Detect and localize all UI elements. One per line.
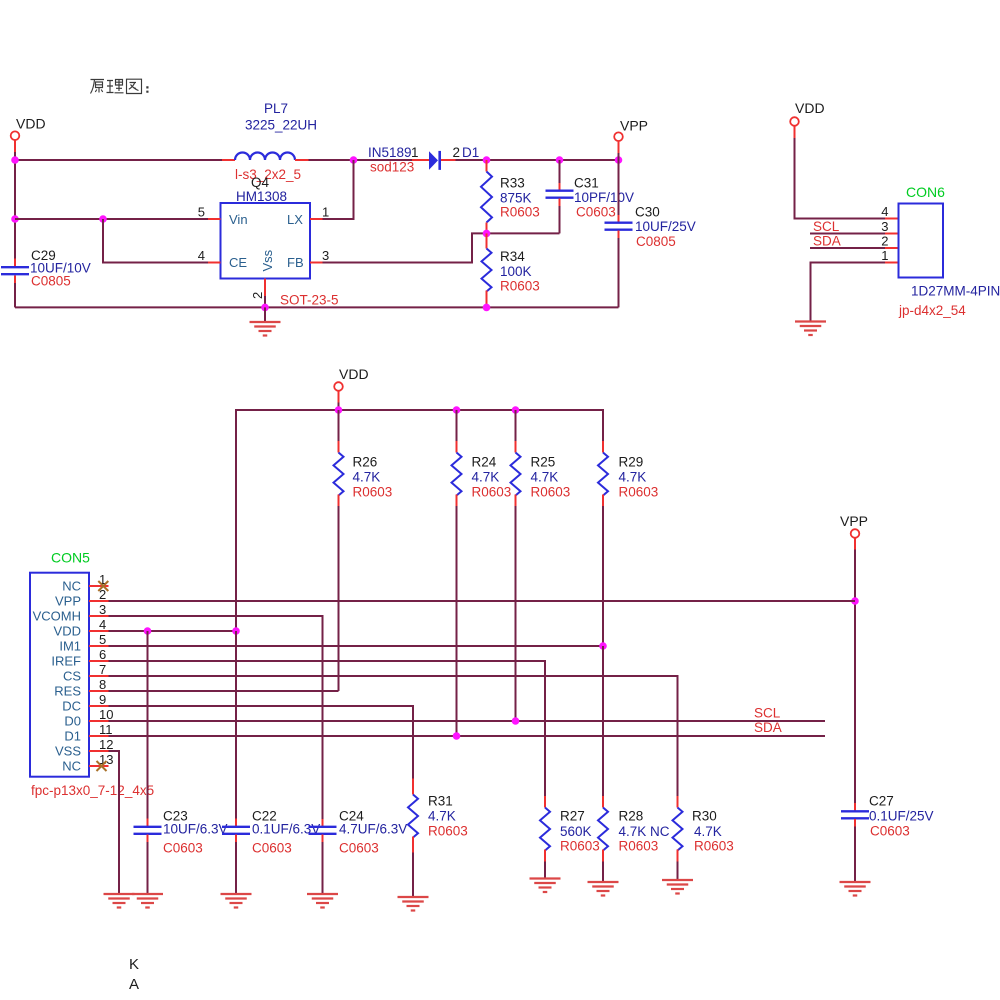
svg-text:12: 12 <box>99 737 113 752</box>
wire R29 to IM1 line <box>602 506 604 646</box>
svg-text:SCL: SCL <box>754 706 781 721</box>
connector CON5 <box>30 550 154 799</box>
resistor R24 <box>452 410 512 506</box>
svg-text:9: 9 <box>99 692 106 707</box>
resistor R29 <box>598 441 658 506</box>
node LX junction <box>350 156 358 164</box>
svg-text:4.7K: 4.7K <box>531 470 559 485</box>
node VDD rail at R26 <box>335 406 343 414</box>
svg-text:C0805: C0805 <box>31 274 71 289</box>
svg-text:A: A <box>129 976 139 993</box>
bottom margin letters <box>129 956 139 993</box>
node R33 top <box>483 156 491 164</box>
svg-text:3: 3 <box>881 219 888 234</box>
svg-text:VSS: VSS <box>55 744 81 759</box>
wire CE branch <box>103 219 208 263</box>
wire VPP column <box>854 550 856 804</box>
pin 3 FB stub <box>310 248 329 263</box>
wire R25 to D0 line <box>515 506 517 721</box>
svg-text:10PF/10V: 10PF/10V <box>574 190 634 205</box>
wire R26 to RES line <box>338 506 340 691</box>
ground (CON6) <box>795 322 826 336</box>
node R33/R34/C31/FB <box>483 230 491 238</box>
power port VDD (lower) <box>334 366 368 410</box>
svg-text:VPP: VPP <box>55 594 81 609</box>
svg-text:560K: 560K <box>560 824 592 839</box>
resistor R26 <box>334 410 393 506</box>
wire pin11 D1 / SDA <box>109 735 826 737</box>
ground (R27) <box>530 879 561 893</box>
svg-text:R25: R25 <box>531 455 556 470</box>
resistor R34 <box>482 233 540 307</box>
pin 4 CE stub <box>198 248 221 263</box>
ground (R31) <box>398 897 429 911</box>
svg-text:R0603: R0603 <box>694 839 734 854</box>
wire pin5 IM1 <box>109 645 604 647</box>
svg-text:4.7K: 4.7K <box>353 470 381 485</box>
node VPP column <box>615 156 623 164</box>
svg-text:Q4: Q4 <box>251 175 270 190</box>
pin 5 Vin stub <box>198 205 221 220</box>
svg-text:FB: FB <box>287 255 304 270</box>
svg-text:R29: R29 <box>619 455 644 470</box>
svg-text:3: 3 <box>322 248 329 263</box>
svg-text:R34: R34 <box>500 249 525 264</box>
svg-text:D0: D0 <box>64 714 81 729</box>
CON5 pin names <box>33 579 82 774</box>
wire C29 bottom <box>14 283 16 307</box>
node left Vin junction <box>11 215 19 223</box>
node Vss ground junction <box>261 304 269 312</box>
svg-text:CON5: CON5 <box>51 550 90 566</box>
svg-text:R26: R26 <box>353 455 378 470</box>
capacitor C30 <box>605 160 696 307</box>
svg-text:100K: 100K <box>500 264 532 279</box>
ground (top circuit) <box>250 322 281 336</box>
svg-text:VDD: VDD <box>339 366 369 382</box>
svg-text:4.7K: 4.7K <box>428 809 456 824</box>
svg-text:2: 2 <box>250 292 265 299</box>
wire VDD to CON6 pin4 <box>795 138 886 219</box>
ground (R30) <box>662 880 693 894</box>
svg-text:4.7K: 4.7K <box>619 470 647 485</box>
node D1 at R24 <box>453 732 461 740</box>
CON5 pin numbers <box>99 572 113 767</box>
svg-text:IN5189: IN5189 <box>368 145 412 160</box>
capacitor C31 <box>546 160 635 233</box>
wire pin10 D0 / SCL <box>109 720 826 722</box>
node D0 at R25 <box>512 717 520 725</box>
svg-text:K: K <box>129 956 139 973</box>
svg-text:R0603: R0603 <box>353 485 393 500</box>
svg-text:2: 2 <box>881 234 888 249</box>
svg-text:1: 1 <box>881 248 888 263</box>
svg-text:C0805: C0805 <box>636 234 676 249</box>
svg-text:875K: 875K <box>500 191 532 206</box>
svg-text:R0603: R0603 <box>472 485 512 500</box>
power port VDD (CON6) <box>790 100 824 138</box>
svg-text:R24: R24 <box>472 455 497 470</box>
resistor R25 <box>511 410 571 506</box>
svg-text:VDD: VDD <box>54 624 81 639</box>
wire ground rail (top circuit) <box>15 306 619 308</box>
inductor PL7 <box>222 101 317 182</box>
node C31 top <box>556 156 564 164</box>
no-connect X pin1 <box>98 581 108 591</box>
svg-text:C0603: C0603 <box>870 824 910 839</box>
svg-text:VDD: VDD <box>16 116 46 132</box>
svg-text:VPP: VPP <box>840 513 868 529</box>
resistor R28 <box>598 646 670 882</box>
power port VPP (lower) <box>840 513 868 550</box>
pin 1 stub CON6 <box>881 248 898 263</box>
svg-text:jp-d4x2_54: jp-d4x2_54 <box>898 303 966 318</box>
svg-text:VPP: VPP <box>620 118 648 134</box>
wire inductor to diode <box>309 159 413 161</box>
svg-text:Vin: Vin <box>229 212 248 227</box>
svg-text:R30: R30 <box>692 809 717 824</box>
wire VDD pull-up rail <box>236 410 603 631</box>
resistor R33 <box>481 160 540 233</box>
wire pin9 DC to R31 <box>109 706 414 779</box>
node VDD rail at R25 <box>512 406 520 414</box>
node VDD rail at R24 <box>453 406 461 414</box>
wire LX to rail <box>323 160 354 219</box>
node pin4 at VDD column <box>232 627 240 635</box>
svg-text:5: 5 <box>99 632 106 647</box>
svg-text:DC: DC <box>62 699 81 714</box>
svg-text:1: 1 <box>411 145 419 160</box>
power port VPP (top) <box>614 118 648 161</box>
svg-text:IM1: IM1 <box>59 639 81 654</box>
wire pin3 VCOMH to C24 <box>109 616 323 819</box>
wire pin7 CS to R30 <box>109 676 678 796</box>
svg-text:0.1UF/25V: 0.1UF/25V <box>869 809 934 824</box>
diode D1 <box>368 145 479 175</box>
svg-text:C0603: C0603 <box>163 841 203 856</box>
svg-text:D1: D1 <box>462 145 479 160</box>
wire VDD rail to inductor <box>15 159 222 161</box>
wire pin4 VDD <box>109 630 237 632</box>
svg-text:D1: D1 <box>64 729 81 744</box>
pin 2 Vss stub <box>250 279 265 300</box>
ground (C23) <box>132 894 163 908</box>
capacitor C22 <box>222 631 320 893</box>
wire pin12 VSS to ground <box>109 751 120 893</box>
svg-text:C27: C27 <box>869 794 894 809</box>
svg-text:2: 2 <box>453 145 461 160</box>
svg-text:R0603: R0603 <box>531 485 571 500</box>
wire CON6 pin1 to ground <box>811 263 886 322</box>
ground (C24) <box>307 894 338 908</box>
svg-text:PL7: PL7 <box>264 101 288 116</box>
svg-text:10UF/6.3V: 10UF/6.3V <box>163 822 228 837</box>
wire VDD left vertical <box>14 152 16 259</box>
wire ground stem <box>264 307 266 321</box>
svg-text:10: 10 <box>99 707 113 722</box>
svg-text:4.7K: 4.7K <box>694 824 722 839</box>
svg-text:R33: R33 <box>500 176 525 191</box>
svg-text:4: 4 <box>881 204 888 219</box>
wire Vss down <box>264 296 266 307</box>
svg-text:4: 4 <box>99 617 106 632</box>
svg-text:4.7UF/6.3V: 4.7UF/6.3V <box>339 822 407 837</box>
svg-text:1D27MM-4PIN: 1D27MM-4PIN <box>911 284 1000 299</box>
ground (C27) <box>840 882 871 896</box>
capacitor C24 <box>309 809 408 894</box>
svg-text:NC: NC <box>62 579 81 594</box>
svg-text:SOT-23-5: SOT-23-5 <box>280 293 339 308</box>
power port VDD (top-left) <box>11 116 46 153</box>
pin 3 stub CON6 <box>881 219 898 234</box>
wire FB to divider <box>323 233 560 262</box>
svg-text:VDD: VDD <box>795 100 825 116</box>
capacitor C23 <box>134 631 228 893</box>
svg-text:fpc-p13x0_7-12_4x5: fpc-p13x0_7-12_4x5 <box>31 783 154 798</box>
svg-text:6: 6 <box>99 647 106 662</box>
svg-text:R31: R31 <box>428 794 453 809</box>
svg-text:C0603: C0603 <box>339 841 379 856</box>
node CE branch junction <box>99 215 107 223</box>
CON5 pin stubs <box>89 586 109 766</box>
svg-text:11: 11 <box>99 722 113 737</box>
connector CON6 <box>898 184 1000 318</box>
svg-text:sod123: sod123 <box>370 160 414 175</box>
svg-text:4: 4 <box>198 248 205 263</box>
svg-text:10UF/25V: 10UF/25V <box>635 219 696 234</box>
wire pin6 IREF to R27 <box>109 661 546 796</box>
svg-text:CS: CS <box>63 669 81 684</box>
svg-text:LX: LX <box>287 212 303 227</box>
pin 2 stub CON6 <box>881 234 898 249</box>
svg-text:NC: NC <box>62 759 81 774</box>
svg-text:SDA: SDA <box>754 720 782 735</box>
svg-text:5: 5 <box>198 205 205 220</box>
svg-text:3: 3 <box>99 602 106 617</box>
svg-text:IREF: IREF <box>51 654 81 669</box>
IC Q4 HM1308 <box>221 175 339 308</box>
svg-text:R0603: R0603 <box>500 205 540 220</box>
svg-text:3225_22UH: 3225_22UH <box>245 118 317 133</box>
svg-text:CE: CE <box>229 255 247 270</box>
svg-text:Vss: Vss <box>260 249 275 271</box>
svg-text:1: 1 <box>322 205 329 220</box>
svg-text:C31: C31 <box>574 176 599 191</box>
pin 4 stub CON6 <box>881 204 898 219</box>
svg-text:R28: R28 <box>619 809 644 824</box>
svg-text:7: 7 <box>99 662 106 677</box>
pin 1 LX stub <box>310 205 329 220</box>
svg-text:4.7K NC: 4.7K NC <box>619 824 670 839</box>
capacitor C29 <box>1 248 91 289</box>
wire SDA <box>810 247 885 249</box>
svg-text:8: 8 <box>99 677 106 692</box>
svg-text:C0603: C0603 <box>576 205 616 220</box>
ground (C22) <box>221 894 252 908</box>
svg-text:C30: C30 <box>635 205 660 220</box>
resistor R30 <box>673 796 734 880</box>
svg-text:SCL: SCL <box>813 219 840 234</box>
ground (R28) <box>588 882 619 896</box>
wire R24 to D1 line <box>456 506 458 736</box>
capacitor C27 <box>841 794 934 883</box>
svg-text:R0603: R0603 <box>428 824 468 839</box>
svg-text:R0603: R0603 <box>619 839 659 854</box>
svg-text:4.7K: 4.7K <box>472 470 500 485</box>
svg-text:R27: R27 <box>560 809 585 824</box>
title 原理图： (drawn strokes) <box>91 79 149 93</box>
svg-text:C0603: C0603 <box>252 841 292 856</box>
node pin4 at C23 <box>144 627 152 635</box>
wire pin2 VPP <box>109 600 856 602</box>
resistor R27 <box>540 796 600 878</box>
wire SCL <box>810 233 885 235</box>
node VDD rail junction <box>11 156 19 164</box>
node IM1 at R29 <box>599 642 607 650</box>
svg-text:SDA: SDA <box>813 234 841 249</box>
node VPP at pin2 wire <box>851 597 859 605</box>
svg-text:RES: RES <box>54 684 81 699</box>
node R34 bottom <box>483 304 491 312</box>
svg-text:R0603: R0603 <box>619 485 659 500</box>
svg-text:R0603: R0603 <box>560 839 600 854</box>
wire pin8 RES to R26 <box>109 690 339 692</box>
no-connect X pin13 <box>97 761 107 771</box>
svg-text:VCOMH: VCOMH <box>33 609 81 624</box>
wire diode to VPP column <box>456 159 619 161</box>
svg-text:R0603: R0603 <box>500 279 540 294</box>
resistor R31 <box>408 779 468 898</box>
svg-text:CON6: CON6 <box>906 184 945 200</box>
svg-text:HM1308: HM1308 <box>236 189 287 204</box>
ground (VSS) <box>104 894 135 908</box>
wire Vin line <box>15 218 208 220</box>
